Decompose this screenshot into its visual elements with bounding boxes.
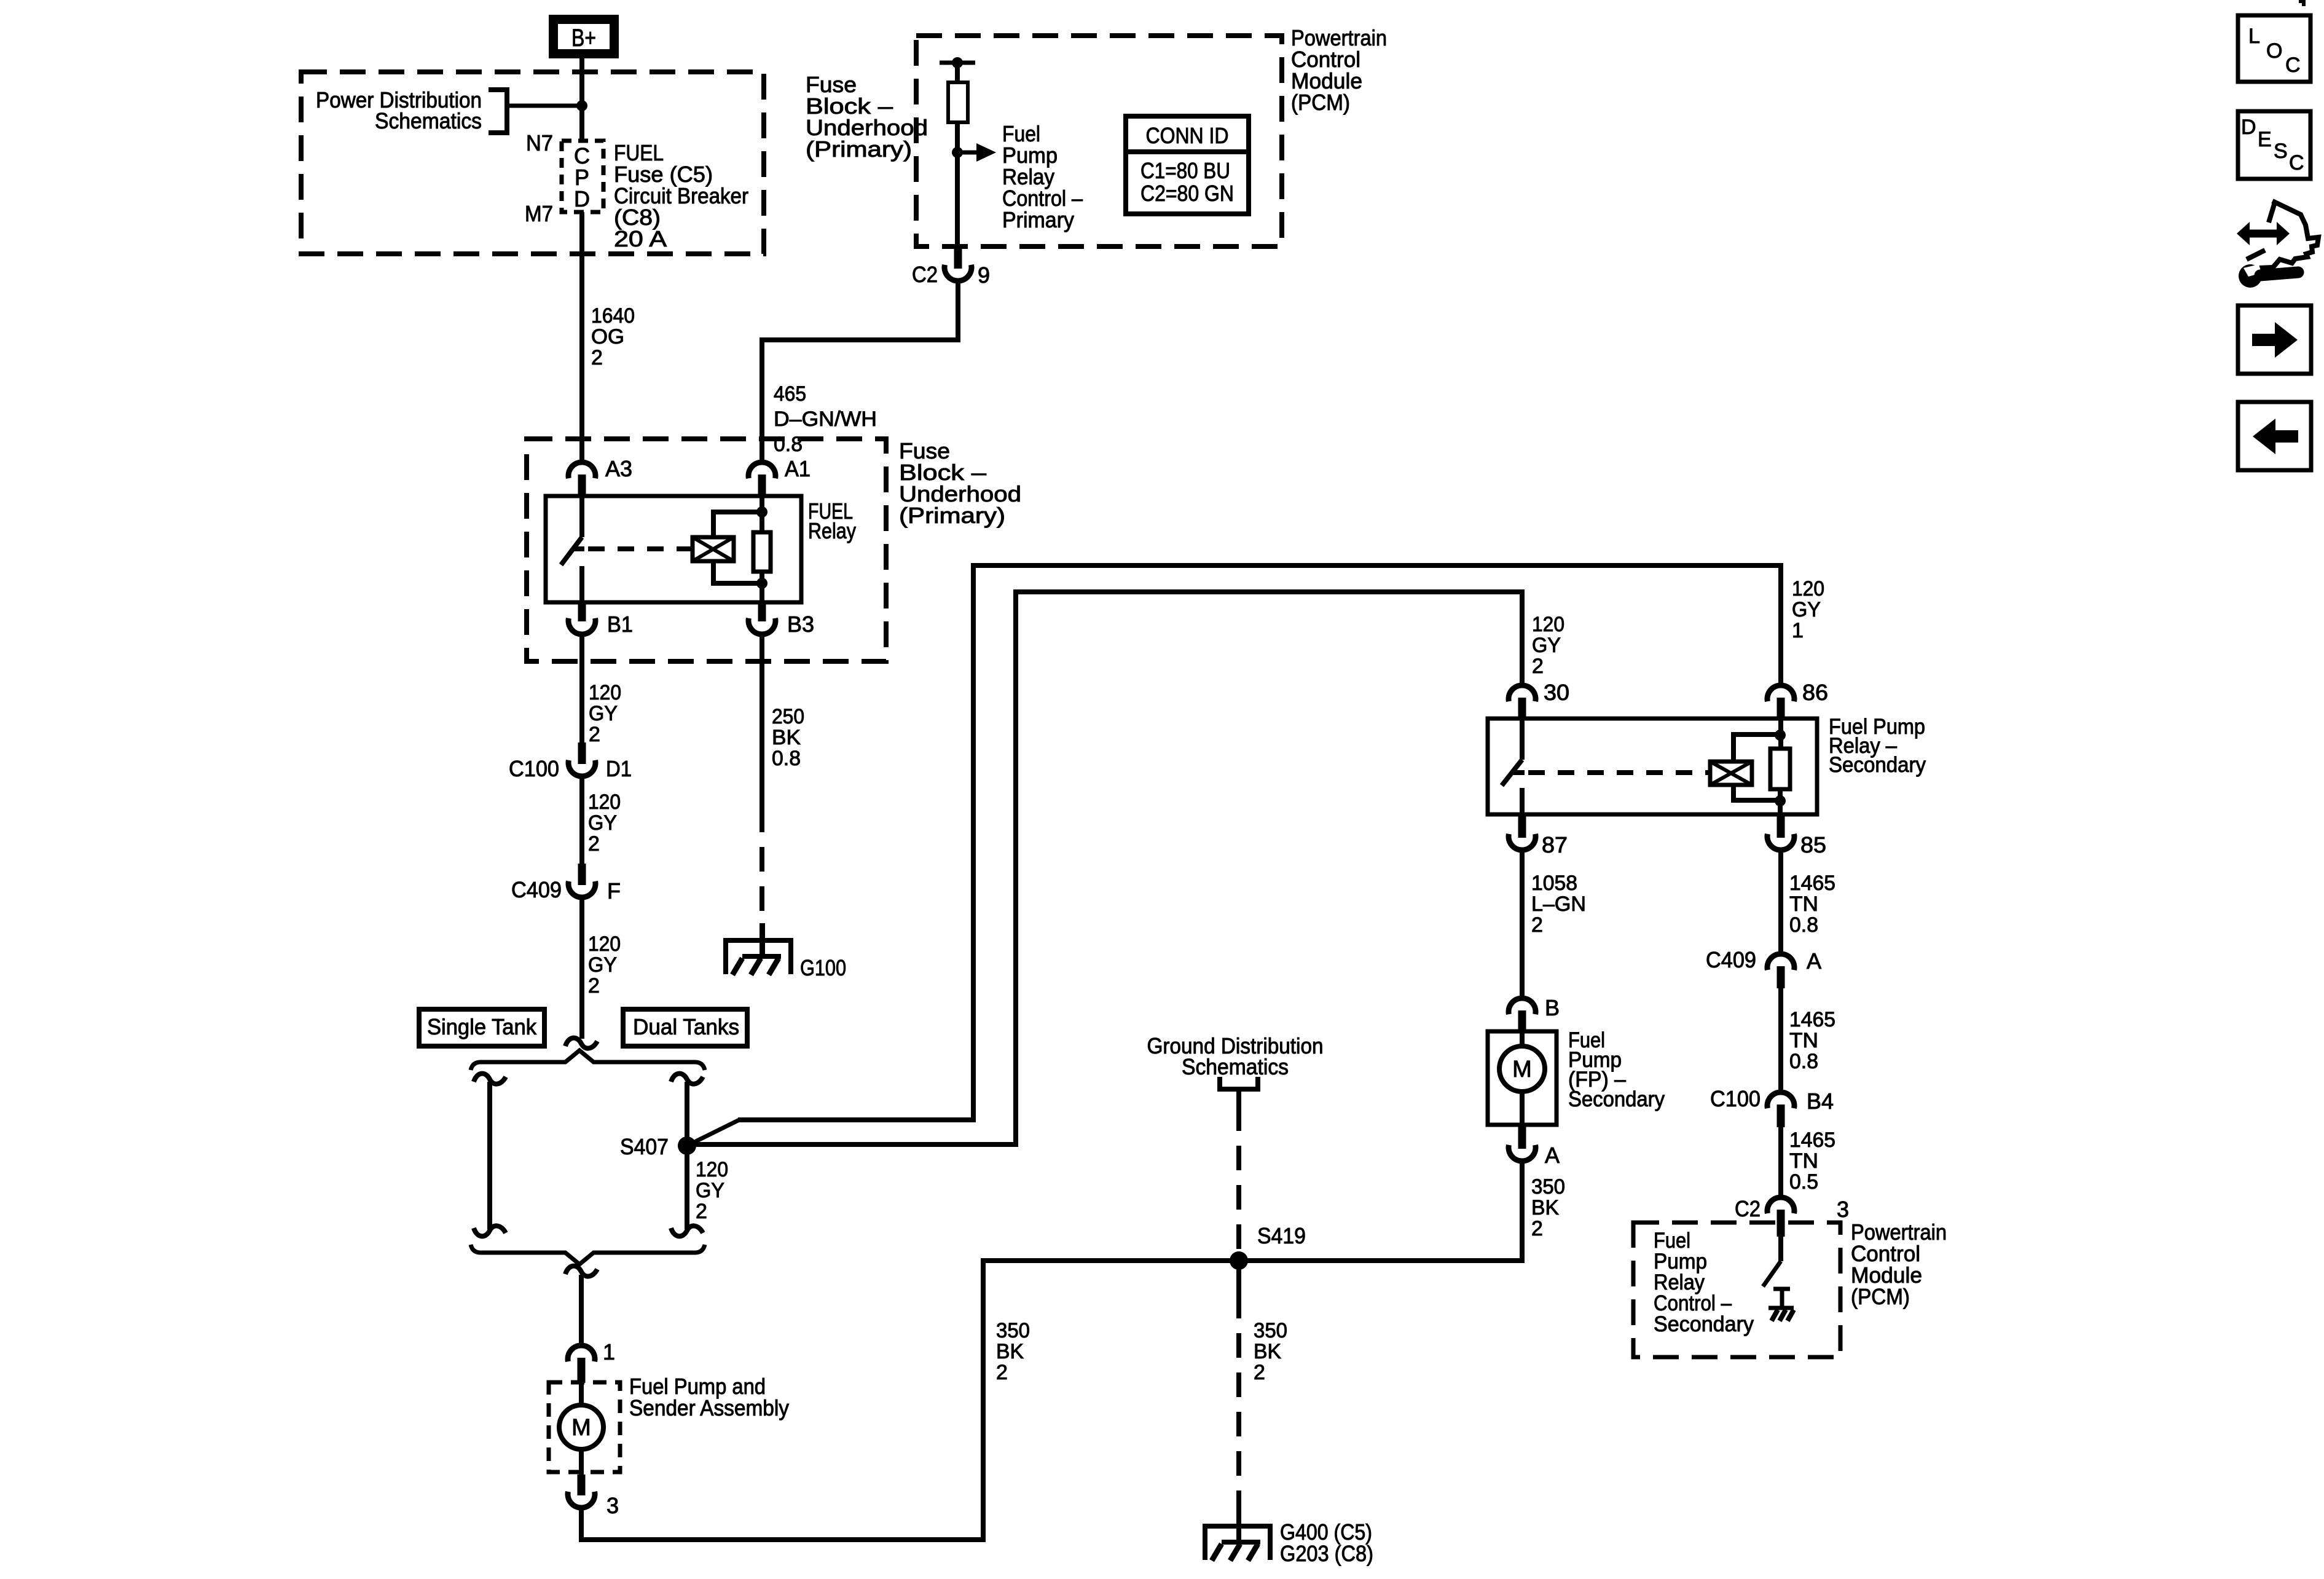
dual tank stub hook top	[671, 1074, 703, 1084]
FP motor M circle	[1499, 1046, 1545, 1092]
svg-text:2: 2	[591, 346, 603, 369]
svg-text:2: 2	[589, 723, 600, 746]
relay2 coil loop bottom	[1733, 785, 1780, 800]
connector C100 bar	[578, 742, 586, 764]
svg-text:1465: 1465	[1789, 872, 1835, 895]
icon forward arrow	[2252, 334, 2275, 346]
connector B3 cup	[748, 618, 775, 634]
svg-text:Primary: Primary	[1002, 207, 1074, 232]
wire fuse to C2 pin9	[955, 122, 960, 248]
svg-text:0.8: 0.8	[772, 747, 801, 770]
connector B1 cup	[568, 618, 595, 634]
relay2 switch tick	[1513, 770, 1525, 775]
svg-text:G100: G100	[800, 955, 846, 980]
svg-text:E: E	[2258, 128, 2272, 151]
relay switch blade	[561, 537, 582, 565]
svg-text:M: M	[571, 1415, 591, 1441]
svg-text:(Primary): (Primary)	[806, 136, 912, 162]
bracket power distribution ref	[489, 90, 507, 133]
Single Tank box	[419, 1009, 544, 1046]
splice S407 dot	[678, 1136, 696, 1155]
PCM primary dashed box	[916, 36, 1282, 246]
svg-text:465: 465	[774, 382, 806, 406]
svg-text:87: 87	[1542, 832, 1568, 857]
svg-text:2: 2	[1532, 655, 1544, 678]
svg-text:(PCM): (PCM)	[1291, 90, 1350, 115]
svg-text:OG: OG	[591, 325, 624, 348]
svg-text:1: 1	[1792, 619, 1804, 642]
relay2 control dashed line	[1528, 770, 1710, 775]
junction dot coil top	[756, 506, 767, 518]
relay2 coil box	[1710, 762, 1752, 785]
svg-text:GY: GY	[1792, 598, 1821, 621]
relay2 switch top stub	[1520, 719, 1525, 760]
splice S419 dot	[1230, 1251, 1248, 1270]
svg-text:30: 30	[1544, 680, 1569, 705]
svg-text:Secondary: Secondary	[1568, 1087, 1665, 1111]
relay2 coil X	[1710, 762, 1752, 785]
svg-text:B+: B+	[571, 25, 596, 52]
connector B1 bar	[578, 602, 586, 621]
svg-text:BK: BK	[996, 1340, 1024, 1363]
fuel pump sender assembly dashed box	[549, 1382, 620, 1472]
svg-text:2: 2	[996, 1361, 1008, 1384]
svg-text:BK: BK	[1254, 1340, 1281, 1363]
svg-text:M: M	[1512, 1057, 1532, 1082]
wire C100B4 to C2-3	[1778, 1127, 1783, 1196]
relay2 switch blade	[1502, 760, 1522, 786]
svg-text:D1: D1	[606, 756, 632, 781]
wire break squiggle bottom	[565, 1266, 597, 1277]
icon LOC box	[2238, 15, 2310, 82]
svg-text:C100: C100	[509, 756, 559, 781]
brace bottom	[471, 1245, 705, 1264]
svg-text:B: B	[1545, 995, 1560, 1020]
connector A bar	[1518, 1125, 1526, 1149]
svg-text:2: 2	[588, 974, 600, 998]
wire B3 to G100 250 BK	[760, 636, 764, 808]
svg-text:O: O	[2266, 39, 2282, 63]
connector 86 bar	[1777, 698, 1785, 720]
PCM2 mini ground	[1769, 1306, 1794, 1310]
svg-text:GY: GY	[588, 811, 617, 835]
connector C2 pin 9 cup	[944, 265, 972, 281]
relay2 switch bottom stub	[1520, 788, 1525, 814]
junction dot arrow tap	[952, 147, 963, 158]
connector A1 dome	[748, 462, 775, 478]
PCM secondary dashed box	[1633, 1223, 1840, 1357]
svg-text:120: 120	[588, 932, 621, 956]
brace top	[471, 1050, 705, 1070]
fuse block underhood primary dashed box 2	[527, 439, 886, 661]
relay coil loop bottom	[713, 561, 762, 583]
svg-text:120: 120	[1532, 613, 1564, 636]
icon forward arrow box	[2238, 305, 2311, 374]
svg-text:0.8: 0.8	[774, 433, 803, 456]
svg-text:120: 120	[588, 790, 621, 814]
svg-text:G203 (C8): G203 (C8)	[1280, 1541, 1373, 1566]
PCM2 switch wire	[1778, 1237, 1783, 1261]
svg-text:Sender Assembly: Sender Assembly	[629, 1395, 789, 1420]
junction dot coil2 top	[1775, 730, 1786, 741]
connector pin3 bar	[578, 1475, 586, 1495]
svg-text:A3: A3	[605, 456, 632, 481]
svg-text:Relay: Relay	[808, 518, 856, 543]
connector C409A bar	[1777, 966, 1785, 988]
wire C100 to C409 120 GY	[579, 778, 584, 864]
wire break squiggle top	[565, 1038, 597, 1049]
svg-text:120: 120	[696, 1158, 728, 1181]
svg-text:250: 250	[772, 705, 804, 728]
svg-text:120: 120	[1792, 577, 1824, 600]
relay2 coil loop top	[1733, 734, 1780, 762]
connector 30 bar	[1518, 698, 1526, 720]
svg-text:9: 9	[978, 262, 990, 288]
svg-text:C1=80 BU: C1=80 BU	[1140, 158, 1230, 183]
relay coil box	[693, 537, 734, 561]
arrow fuel pump relay control	[957, 151, 978, 155]
wire tap to bracket	[507, 104, 582, 108]
wire S419 to ground dashed	[1236, 1261, 1241, 1294]
fuel pump relay secondary box	[1488, 719, 1817, 814]
svg-text:M7: M7	[525, 201, 553, 226]
connector 87 bar	[1518, 814, 1526, 838]
page corner mark	[2299, 1, 2304, 6]
fuel pump FP secondary box	[1488, 1031, 1557, 1125]
svg-text:N7: N7	[526, 130, 553, 156]
connector 87 cup	[1509, 834, 1536, 850]
bracket ground distribution	[1220, 1077, 1258, 1089]
wire dashed to S419	[1236, 1106, 1241, 1250]
svg-text:Schematics: Schematics	[375, 108, 482, 133]
single tank stub hook top	[474, 1074, 506, 1084]
relay2 resistor	[1770, 749, 1790, 789]
fuse symbol in PCM	[948, 82, 968, 122]
wire pump return via riser to FP-A	[581, 1163, 1522, 1540]
svg-text:D–GN/WH: D–GN/WH	[774, 408, 877, 431]
connector 86 dome	[1767, 685, 1794, 701]
svg-text:350: 350	[1531, 1175, 1565, 1199]
fuel pump motor M circle	[559, 1405, 603, 1449]
svg-text:C409: C409	[1706, 947, 1756, 972]
svg-text:D: D	[2241, 116, 2256, 139]
connector C100B4 dome	[1767, 1092, 1794, 1108]
icon wrench	[2239, 264, 2262, 288]
svg-text:1465: 1465	[1789, 1128, 1835, 1152]
svg-text:Secondary: Secondary	[1654, 1312, 1754, 1336]
svg-text:350: 350	[1254, 1319, 1287, 1342]
svg-text:(Primary): (Primary)	[899, 503, 1005, 528]
svg-text:S407: S407	[620, 1134, 669, 1159]
svg-text:GY: GY	[696, 1179, 724, 1202]
svg-text:CONN ID: CONN ID	[1146, 123, 1229, 148]
wire S407 lower branch to pin30	[687, 592, 1522, 1144]
svg-text:GY: GY	[589, 702, 618, 725]
svg-text:0.5: 0.5	[1789, 1170, 1818, 1194]
relay resistor	[753, 532, 771, 572]
relay2 resistor wire	[1778, 789, 1783, 814]
wire fuse to relay A3 1640 OG	[579, 212, 584, 461]
svg-text:S: S	[2274, 140, 2288, 163]
connector C2-3 bar	[1777, 1210, 1785, 1237]
relay control dashed line	[588, 546, 693, 551]
svg-text:GY: GY	[1532, 634, 1561, 657]
wire FP top stub	[1520, 1031, 1525, 1047]
connector A cup	[1509, 1145, 1536, 1161]
svg-text:TN: TN	[1789, 1149, 1818, 1173]
svg-text:BK: BK	[772, 726, 801, 749]
connector A1 bar	[758, 474, 766, 497]
wire pump top stub	[579, 1382, 584, 1406]
relay switch tick	[573, 546, 584, 551]
svg-text:3: 3	[1837, 1197, 1849, 1222]
connector C2 pin 9 bar	[954, 246, 962, 269]
svg-text:S419: S419	[1257, 1223, 1306, 1248]
PCM2 contact tick	[1773, 1287, 1790, 1291]
ground G400 symbol	[1236, 1511, 1241, 1542]
connector B3 bar	[758, 602, 766, 621]
svg-text:(PCM): (PCM)	[1851, 1284, 1910, 1309]
junction dot power distribution tap	[576, 100, 587, 111]
wire 85 to C409 1465 TN	[1778, 851, 1783, 953]
connector pin1 bar	[578, 1358, 586, 1383]
junction dot coil2 bottom	[1775, 795, 1786, 806]
svg-text:TN: TN	[1789, 1029, 1818, 1052]
svg-text:Secondary: Secondary	[1829, 753, 1926, 777]
connector 85 bar	[1777, 814, 1785, 838]
svg-text:C: C	[2285, 53, 2301, 77]
svg-text:A: A	[1807, 948, 1821, 974]
fuse CPD FUEL circuit breaker dashed box	[562, 141, 603, 212]
relay resistor wire to B3	[760, 572, 764, 602]
icon DESC box	[2238, 111, 2310, 179]
Dual Tanks box	[623, 1009, 747, 1046]
svg-text:C100: C100	[1710, 1086, 1761, 1111]
icon double arrow	[2248, 230, 2278, 238]
relay A1 internal wire	[760, 496, 764, 532]
svg-text:85: 85	[1800, 832, 1826, 857]
svg-text:1: 1	[603, 1339, 615, 1364]
wire S407 diagonal up branch	[687, 1120, 739, 1146]
svg-text:C2=80 GN: C2=80 GN	[1140, 181, 1234, 206]
wire B+ to fuse N7	[579, 58, 584, 141]
connector C100 cup	[568, 760, 595, 776]
svg-text:C2: C2	[1735, 1196, 1761, 1221]
fuse block underhood primary dashed box 1	[301, 72, 764, 254]
PCM2 switch blade	[1763, 1261, 1781, 1286]
svg-text:1058: 1058	[1531, 872, 1577, 895]
svg-text:C409: C409	[511, 877, 562, 902]
wire pump bottom stub	[579, 1449, 584, 1476]
PCM internal top terminal	[940, 61, 975, 65]
svg-text:2: 2	[1254, 1361, 1265, 1384]
icon hood outline	[2269, 202, 2275, 222]
svg-text:BK: BK	[1531, 1196, 1559, 1219]
relay coil loop top	[713, 512, 762, 537]
dual tank stub hook bottom	[671, 1226, 703, 1236]
svg-text:GY: GY	[588, 953, 617, 977]
svg-text:2: 2	[696, 1200, 707, 1223]
svg-text:D: D	[574, 186, 590, 211]
wire PCM top to fuse	[955, 63, 960, 82]
connector A3 bar	[578, 474, 586, 497]
svg-text:20 A: 20 A	[614, 226, 667, 251]
svg-text:3: 3	[607, 1493, 619, 1518]
connector B dome	[1509, 998, 1536, 1014]
svg-text:F: F	[607, 878, 621, 904]
svg-text:Single Tank: Single Tank	[427, 1014, 537, 1039]
dual tank wire	[685, 1082, 689, 1229]
connector pin3 cup	[568, 1492, 595, 1508]
relay switch bottom stub	[579, 566, 584, 602]
CONN ID table	[1126, 116, 1249, 214]
svg-text:0.8: 0.8	[1789, 1050, 1818, 1073]
icon back arrow box	[2238, 402, 2311, 470]
battery feed B+ terminal box	[554, 20, 614, 54]
wire S407 upper branch to pin86	[738, 565, 1781, 1120]
svg-text:0.8: 0.8	[1789, 913, 1818, 937]
svg-text:Schematics: Schematics	[1182, 1054, 1289, 1079]
svg-text:1465: 1465	[1789, 1008, 1835, 1031]
wire 87 to B 1058 LGN	[1520, 851, 1525, 997]
connector B bar	[1518, 1010, 1526, 1033]
svg-text:2: 2	[588, 832, 600, 856]
wire 465 from C2-9	[762, 282, 958, 461]
relay switch top stub	[579, 496, 584, 537]
icon back arrow	[2275, 430, 2298, 443]
connector A3 dome	[568, 462, 595, 478]
single tank stub hook bottom	[474, 1226, 506, 1236]
single tank stub wire	[487, 1082, 492, 1229]
FUEL relay box	[546, 496, 801, 602]
connector C2-3 dome	[1767, 1197, 1794, 1213]
svg-text:350: 350	[996, 1319, 1030, 1342]
connector pin1 dome	[568, 1345, 595, 1361]
svg-text:A: A	[1545, 1143, 1560, 1168]
connector C100B4 bar	[1777, 1105, 1785, 1127]
relay coil X	[693, 537, 734, 561]
svg-text:120: 120	[589, 681, 621, 704]
wire C409A to C100B4	[1778, 988, 1783, 1091]
connector C409 cup	[568, 881, 595, 897]
junction dot coil bottom	[756, 578, 767, 589]
svg-text:2: 2	[1531, 1217, 1543, 1240]
svg-text:C2: C2	[912, 262, 938, 287]
PCM2 contact stub	[1780, 1289, 1784, 1307]
svg-text:A1: A1	[785, 456, 811, 481]
connector 30 dome	[1509, 685, 1536, 701]
connector C409 bar	[578, 864, 586, 885]
svg-text:L–GN: L–GN	[1531, 892, 1586, 916]
svg-text:1640: 1640	[591, 304, 635, 328]
wire tank to fuel pump pin1	[579, 1275, 584, 1344]
svg-text:L: L	[2248, 25, 2260, 48]
svg-text:Dual Tanks: Dual Tanks	[633, 1014, 739, 1039]
relay2 86 internal wire	[1778, 719, 1783, 749]
wire C409 to tanks 120 GY	[579, 899, 584, 1039]
svg-text:2: 2	[1531, 913, 1543, 937]
svg-text:B4: B4	[1807, 1089, 1834, 1114]
wire B1 to C100 120 GY	[579, 636, 584, 742]
wire FP bottom stub	[1520, 1091, 1525, 1125]
svg-text:86: 86	[1802, 680, 1828, 705]
svg-text:C: C	[2289, 151, 2304, 175]
junction dot PCM top	[952, 57, 963, 68]
connector 85 cup	[1767, 834, 1794, 850]
ground G100 symbol	[760, 923, 765, 956]
svg-text:B1: B1	[607, 612, 633, 637]
svg-text:TN: TN	[1789, 892, 1818, 916]
svg-text:B3: B3	[787, 612, 814, 637]
connector C409A dome	[1767, 954, 1794, 970]
